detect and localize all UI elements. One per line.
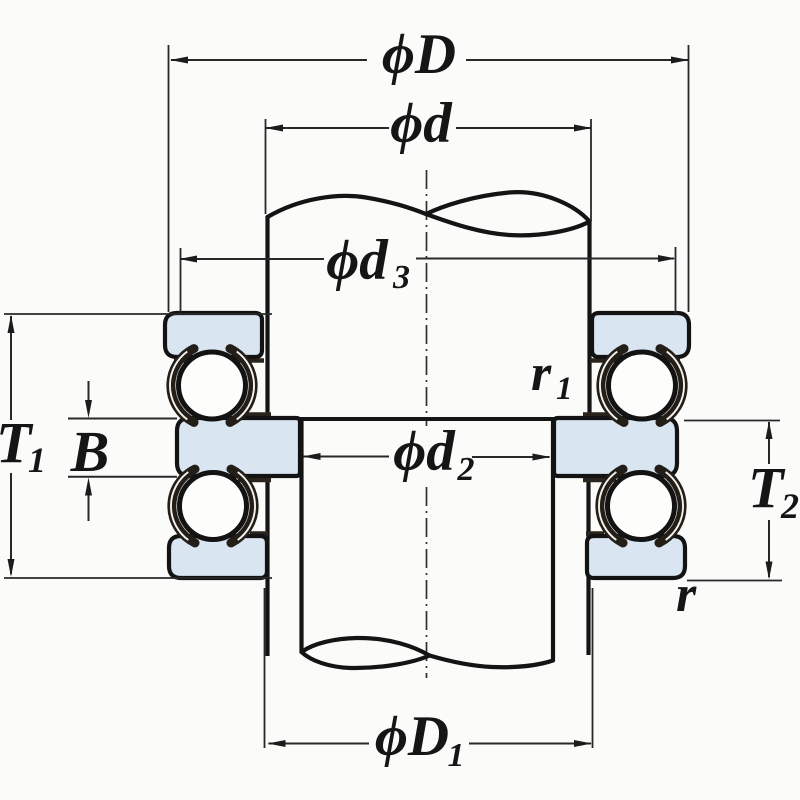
dimension line T2	[684, 421, 782, 581]
svg-text:ϕD: ϕD	[375, 705, 449, 768]
raceway strip above right bottom washer	[586, 531, 604, 536]
dimension B	[68, 381, 177, 521]
shaft lower-section right edge	[551, 419, 555, 661]
dimension line phid3	[179, 247, 676, 314]
cage right bearing lower ball	[599, 469, 683, 543]
housing washer top left	[165, 313, 262, 357]
raceway strip below left centre washer	[238, 478, 271, 483]
svg-text:B: B	[70, 419, 110, 484]
raceway strip above left centre washer	[238, 412, 271, 417]
raceway strip above left bottom washer	[250, 531, 268, 536]
shaft top break lens top arc	[426, 192, 590, 221]
cage left bearing lower ball	[171, 469, 255, 543]
svg-text:ϕd: ϕd	[393, 420, 456, 483]
housing washer bottom right	[587, 536, 685, 578]
svg-text:1: 1	[448, 737, 465, 774]
ball right upper	[609, 352, 676, 419]
raceway strip below right centre washer	[583, 478, 616, 483]
shaft bottom break lens bottom arc	[302, 652, 430, 668]
svg-text:2: 2	[457, 451, 475, 488]
cage left bearing upper ball	[170, 349, 254, 423]
svg-text:ϕD: ϕD	[382, 23, 456, 86]
shaft lower-section left edge	[299, 419, 303, 652]
dimension line phiD1	[265, 588, 593, 748]
svg-text:2: 2	[780, 486, 799, 526]
housing washer top right	[592, 313, 689, 357]
raceway strip below right top washer	[590, 358, 680, 363]
ball left upper	[179, 352, 246, 419]
shaft top break S-curve	[268, 196, 427, 217]
svg-text:1: 1	[556, 371, 573, 407]
shaft bottom break S-curve tail	[430, 656, 554, 668]
raceway strip below left top washer	[174, 358, 264, 363]
centerline axis	[426, 170, 428, 678]
dimension line phid2	[303, 453, 551, 461]
shaft upper-section right edge	[587, 221, 591, 419]
svg-text:3: 3	[392, 259, 410, 296]
shaft centre washer left	[177, 418, 300, 476]
svg-text:r: r	[531, 345, 552, 402]
raceway strip above right centre washer	[583, 412, 616, 417]
dimension line phid	[265, 119, 592, 221]
sleeve lower edge left	[265, 477, 269, 656]
shaft centre washer right	[554, 418, 677, 476]
shaft bottom break lens top arc	[302, 638, 430, 656]
cage right bearing upper ball	[600, 349, 684, 423]
shaft upper-section left edge	[265, 216, 269, 419]
ball left lower	[180, 473, 247, 540]
svg-text:ϕd: ϕd	[326, 229, 389, 292]
sleeve lower edge right	[586, 477, 590, 655]
svg-text:r: r	[676, 566, 697, 623]
svg-text:ϕd: ϕd	[390, 92, 453, 155]
dimension line phiD	[169, 45, 690, 312]
dimension line T1	[4, 314, 272, 578]
housing washer bottom left	[169, 536, 267, 578]
ball right lower	[608, 473, 675, 540]
shaft shoulder line	[300, 417, 556, 421]
shaft top break lens bottom arc	[426, 214, 590, 235]
svg-text:1: 1	[28, 440, 46, 480]
